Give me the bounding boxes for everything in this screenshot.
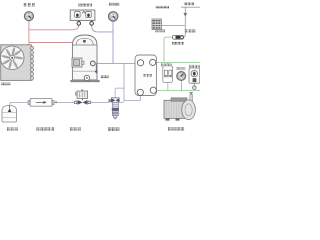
wire: red branch to compressor discharge nub <box>29 42 73 44</box>
condenser coil loops right edge <box>30 46 34 80</box>
wire: blue from switch right terminal to LP gauge stem <box>92 25 113 32</box>
wire: TXV outlet to junction <box>120 101 124 103</box>
label 液位开关 <box>161 64 172 67</box>
wire: green water bottom horizontal <box>156 90 200 92</box>
pump outlet flange arrow <box>189 92 193 95</box>
label 高压表 <box>24 3 36 6</box>
label 普通阀门 <box>172 42 184 45</box>
label 干燥过滤器 <box>36 127 54 130</box>
LP gauge <box>109 12 118 21</box>
TXV hatched nut <box>112 111 118 116</box>
wire: green water top-right horizontal inlet <box>181 6 200 8</box>
wire: blue vertical LP gauge stem down to suction line <box>112 21 114 63</box>
flow arrow down on tap line <box>184 13 188 17</box>
wire: liquid line drier to solenoid valve <box>54 101 74 103</box>
wire: red branch to pressure switch left terminal <box>29 25 79 29</box>
label 自来水 on tap line <box>185 29 196 32</box>
TXV bottom tip <box>113 116 117 118</box>
drier internal flow arrow <box>36 101 44 103</box>
label 循环水泵 <box>168 127 184 131</box>
wire: green water horizontal at y62 <box>156 61 200 63</box>
pump outlet pipe <box>190 95 193 101</box>
compressor dome dot <box>83 40 86 43</box>
label 蒸发器 <box>143 74 152 77</box>
switch dial right <box>86 11 91 17</box>
label 水压控制 <box>189 65 200 68</box>
label 温度控制器 <box>156 6 169 9</box>
TXV top bar <box>111 97 120 98</box>
water pressure controller <box>189 68 200 83</box>
label 低压表 <box>109 3 119 6</box>
solenoid valve coil <box>77 91 88 98</box>
compressor band line <box>72 70 97 72</box>
compressor terminal box <box>72 58 82 67</box>
TXV left cap <box>109 100 111 102</box>
TXV bowtie <box>111 98 115 102</box>
wire: gray line from striped tank to tap vertical <box>162 25 186 27</box>
compressor base <box>70 80 99 82</box>
wire: liquid line receiver to drier <box>10 102 28 105</box>
condenser fan hub <box>10 55 15 60</box>
label 出水口 below tank <box>155 29 165 32</box>
wire: liquid line solenoid valve to expansion valve <box>91 101 110 103</box>
wire: green below flow switch <box>167 83 169 91</box>
pump feet <box>166 118 170 120</box>
junction dot on liquid line <box>55 101 57 103</box>
filter drier body <box>28 101 30 105</box>
wire: red discharge vertical from HP gauge to condenser top <box>28 21 30 45</box>
label 水压表 <box>177 67 186 70</box>
evaporator ports <box>137 60 143 66</box>
label 压缩机 <box>101 75 109 78</box>
condenser C1 body <box>1 45 32 81</box>
label 冷凝器 <box>1 83 10 86</box>
TXV dark collar <box>112 108 119 111</box>
wire: equalizer vertical and evap inlet line <box>124 63 140 100</box>
label 压力控制器 <box>78 3 92 6</box>
switch terminal circles <box>77 22 81 26</box>
switch caret mark <box>82 11 85 13</box>
evaporator plate HX box <box>135 55 157 96</box>
pressure switch U1 box <box>70 10 95 20</box>
wire: gray tap water vertical down to valve <box>183 7 186 37</box>
solenoid flanges <box>74 101 77 104</box>
compressor M1 body <box>72 35 97 80</box>
ordinary valve (普通阀门) <box>173 35 184 39</box>
compressor dome joint and inner arc <box>72 44 97 46</box>
condenser fan <box>0 46 24 70</box>
label 电磁阀 <box>70 127 81 130</box>
controller stem end circle <box>193 86 197 90</box>
wire: controller stem to green line <box>193 83 195 86</box>
receiver tank <box>2 106 17 123</box>
compressor suction fitting <box>90 61 95 66</box>
wire: green from valve left curving down <box>164 37 173 62</box>
water pressure gauge <box>177 72 186 81</box>
wire: TXV outlet jog up and over <box>115 88 124 97</box>
service arrow under suction line <box>95 63 97 71</box>
label 储液罐 <box>7 127 18 130</box>
compressor oil sight circle <box>84 75 89 80</box>
receiver top valve arrow <box>8 108 12 112</box>
switch dial left <box>75 11 80 17</box>
TXV body <box>112 103 118 109</box>
label 膨胀阀 <box>108 127 119 131</box>
HP gauge <box>24 12 33 21</box>
pump volute <box>182 100 196 120</box>
wire: water gauge stem <box>181 80 183 90</box>
solenoid valve bowtie <box>78 100 83 105</box>
pump terminal box <box>171 98 187 101</box>
wire: suction line compressor to evaporator <box>97 62 138 64</box>
switch terminal stems <box>78 20 80 22</box>
label 进水口 top right <box>184 2 194 5</box>
wire: green vertical through flow switch <box>167 62 169 65</box>
flow switch box <box>163 66 173 83</box>
striped tank <box>152 19 162 30</box>
water pump motor <box>164 100 185 118</box>
